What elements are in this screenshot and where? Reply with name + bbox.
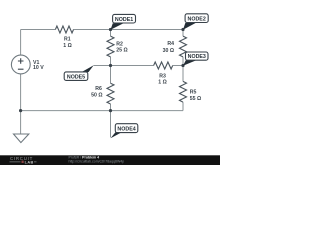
resistor R6 [91,83,114,104]
node NODE5 flag [64,65,94,80]
svg-text:1 Ω: 1 Ω [63,43,72,49]
wire R6 top lead [110,66,112,84]
svg-text:NODE5: NODE5 [67,74,85,80]
svg-text:R6: R6 [95,86,102,92]
wire V1 bottom lead [20,74,22,111]
resistor R5 [180,81,202,102]
wire R4 top lead [182,30,184,37]
wire R2 bottom lead [110,57,112,66]
wire NODE4 stub [110,111,112,138]
node junction dot NODE4 [109,109,112,112]
node NODE1 flag [111,14,136,29]
node NODE4 flag [111,124,138,139]
svg-text:R3: R3 [159,73,166,79]
wire R6 bottom lead [110,104,112,111]
voltage source V1 [11,55,44,74]
resistor R3 [154,62,173,86]
wire top rail left segment [21,29,56,31]
svg-text:R2: R2 [116,41,123,47]
svg-text:NODE1: NODE1 [115,17,133,23]
node junction dot bottom left [19,109,22,112]
wire R4 bottom lead [182,57,184,66]
wire top lead of V1 [20,30,22,56]
svg-text:1 Ω: 1 Ω [158,80,167,86]
svg-text:NODE4: NODE4 [117,126,135,132]
svg-text:R1: R1 [64,37,71,43]
svg-text:NODE2: NODE2 [188,16,206,22]
wire ground stem [20,111,22,134]
wire R5 top lead [182,66,184,82]
resistor R1 [55,26,73,49]
svg-text:30 Ω: 30 Ω [163,48,174,54]
svg-text:10 V: 10 V [33,65,44,71]
svg-text:R5: R5 [190,89,197,95]
node junction dot NODE2 [181,28,184,31]
wire R2 top lead [110,30,112,37]
resistor R4 [163,36,187,57]
node NODE3 flag [183,52,208,66]
wire bottom rail [21,110,183,112]
resistor R2 [107,36,128,57]
svg-text:LAB: LAB [25,161,34,165]
svg-text:http://circuitlab.com/c2h78aqq: http://circuitlab.com/c2h78aqq8W4p [69,160,125,164]
svg-text:25 Ω: 25 Ω [116,48,127,54]
svg-text:NODE3: NODE3 [188,54,206,60]
svg-text:R4: R4 [167,41,174,47]
node junction dot NODE3 [181,64,184,67]
wire middle NODE5 stub and left segment [94,65,154,67]
node junction dot middle left [109,64,112,67]
ground [14,134,29,143]
node NODE2 flag [183,14,208,30]
node junction dot NODE1 [109,28,112,31]
svg-text:55 Ω: 55 Ω [190,96,201,102]
svg-text:50 Ω: 50 Ω [91,92,102,98]
wire top rail right segment [74,29,184,31]
footer logo LAB row [10,161,37,163]
footer bar [0,155,220,165]
wire middle right segment [173,65,183,67]
wire R5 bottom lead [182,102,184,111]
